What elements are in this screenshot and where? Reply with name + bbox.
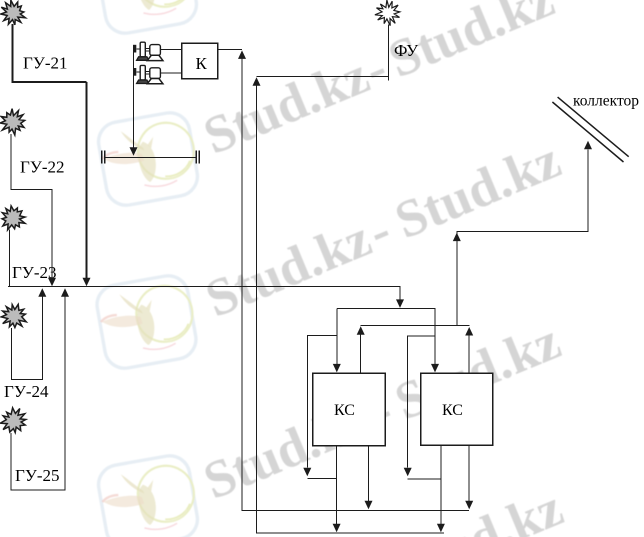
riser line to ФУ (x=256.5) and bottom header B2 [253, 77, 261, 86]
wire outlet left KC riser [357, 326, 365, 335]
wire K output [218, 49, 242, 51]
wire ГУ-22 to manifold [11, 134, 52, 278]
svg-text:К: К [196, 54, 208, 73]
flare/source symbol ГУ-21 [1, 0, 26, 25]
watermark logo stamps column [94, 0, 202, 537]
pump unit P1 [133, 42, 182, 60]
svg-text:Stud.kz: Stud.kz [390, 479, 571, 537]
flare/source symbol ГУ-25 [0, 408, 26, 433]
svg-text:ГУ-24: ГУ-24 [4, 382, 49, 401]
svg-text:Stud.kz: Stud.kz [387, 131, 568, 251]
recycle branch left KC [307, 336, 337, 468]
svg-text:Stud.kz: Stud.kz [198, 209, 379, 329]
svg-text:коллектор: коллектор [573, 93, 639, 110]
flare/source symbol ГУ-22 [0, 109, 25, 135]
pump unit P2 [133, 65, 182, 83]
flare/source symbol ГУ-23 [2, 206, 25, 230]
svg-text:ФУ: ФУ [394, 41, 419, 60]
flare separator line [104, 156, 197, 158]
riser line to K (x=242) and bottom header B1 [238, 50, 246, 59]
drain left KC to B2 [336, 446, 338, 524]
drain right KC to B1 [468, 445, 470, 501]
svg-text:КС: КС [334, 402, 355, 419]
compressor station block KC (right) [421, 373, 493, 445]
svg-text:ГУ-22: ГУ-22 [20, 158, 65, 177]
collector pipe diagonals [558, 97, 629, 157]
svg-text:ГУ-25: ГУ-25 [15, 466, 60, 485]
compressor block K [182, 43, 218, 79]
svg-text:ГУ-21: ГУ-21 [23, 54, 68, 73]
svg-text:Stud.kz: Stud.kz [196, 46, 377, 166]
outlet header from KC units [361, 324, 470, 326]
inlet header to KC units [337, 309, 435, 365]
wire inlet left KC [336, 309, 338, 365]
wire ГУ-25 to manifold [11, 296, 65, 490]
wire pumps drop line to flare separator [133, 45, 135, 148]
separator end mark right [196, 151, 199, 164]
svg-text:КС: КС [442, 402, 463, 419]
wire outlet right KC riser [465, 327, 473, 336]
compressor station block KC (left) [313, 373, 386, 446]
recycle branch right KC [408, 336, 435, 468]
flare/source symbol ГУ-24 [1, 304, 26, 327]
drain right KC to B2 [440, 445, 442, 524]
wire ФУ drop line [388, 25, 390, 81]
wire ГУ-23 to manifold [9, 230, 11, 287]
watermark text runs [196, 0, 571, 537]
flare symbol ФУ (open star) [375, 0, 400, 26]
separator end mark left [102, 151, 105, 164]
wire to collector [453, 233, 461, 242]
drain left KC to B1 [368, 446, 370, 501]
wire ГУ-24 to manifold [12, 296, 43, 380]
manifold bus line [8, 287, 400, 300]
wire ГУ-21 to manifold [13, 24, 87, 82]
